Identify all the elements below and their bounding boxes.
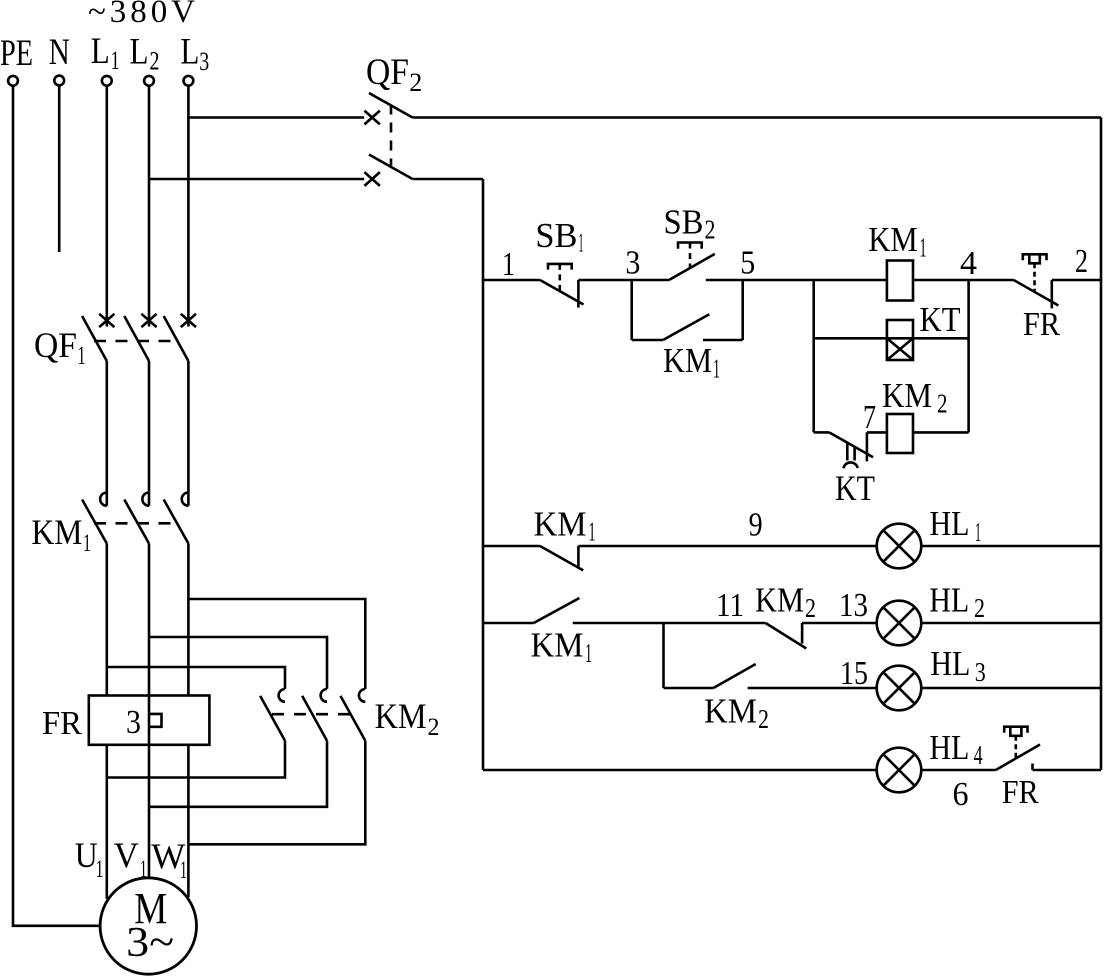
svg-text:3: 3 xyxy=(199,47,209,76)
svg-text:L: L xyxy=(130,32,149,73)
svg-text:1: 1 xyxy=(180,857,187,884)
contact FR NC thermal (main rung) blade xyxy=(1014,280,1059,306)
svg-text:13: 13 xyxy=(839,587,868,624)
svg-text:KM: KM xyxy=(868,220,918,259)
contact FR actuator bar with ticks xyxy=(1023,254,1047,260)
contact KT time-delayed blade xyxy=(829,432,873,457)
node 5 branch vertical xyxy=(741,280,744,340)
wire rung 3 right to rail xyxy=(922,687,1101,690)
svg-text:1: 1 xyxy=(83,530,91,557)
svg-text:KM: KM xyxy=(663,341,712,380)
breaker QF1 pole 3 blade xyxy=(164,316,189,361)
wire KT coil branch xyxy=(814,337,969,340)
svg-text:FR: FR xyxy=(1002,774,1039,811)
contact KM1 NO (rung 2) blade xyxy=(534,598,580,623)
terminal L3 xyxy=(184,76,194,86)
svg-text:15: 15 xyxy=(840,655,868,692)
contactor KM1 main contact pole 1 arc xyxy=(100,493,107,506)
pushbutton SB2 actuator stem (dashed) xyxy=(689,243,692,268)
breaker QF1 pole 1 cross xyxy=(99,314,114,327)
lamp HL4 xyxy=(877,748,922,793)
svg-text:2: 2 xyxy=(150,47,160,76)
svg-text:1: 1 xyxy=(78,341,86,370)
wire rung 4 node 6 segment xyxy=(922,769,996,772)
svg-text:KM: KM xyxy=(31,512,82,552)
terminal L1 xyxy=(102,76,112,86)
svg-text:1: 1 xyxy=(96,856,104,883)
svg-text:1: 1 xyxy=(585,638,592,668)
svg-text:9: 9 xyxy=(749,507,763,544)
svg-text:2: 2 xyxy=(705,215,716,245)
wire V1 below FR to motor xyxy=(148,745,151,877)
wire KM2 pole 1 bottom to U-phase xyxy=(107,741,285,778)
wire left rail xyxy=(482,179,485,770)
svg-text:L: L xyxy=(91,31,110,72)
coil KM1 xyxy=(887,261,913,301)
contactor KM1 main contact pole 2 arc xyxy=(142,493,149,506)
svg-text:KT: KT xyxy=(920,300,961,339)
wire N xyxy=(58,86,61,252)
wire rung 1 right to rail xyxy=(922,545,1101,548)
svg-text:KM: KM xyxy=(375,696,427,736)
svg-text:KM: KM xyxy=(755,581,804,620)
svg-text:4: 4 xyxy=(974,740,983,770)
contact KM1 auxiliary NO right lead xyxy=(703,339,743,342)
breaker QF1 pole 1 blade xyxy=(82,316,107,361)
svg-text:~380V: ~380V xyxy=(88,0,195,30)
svg-text:3~: 3~ xyxy=(126,920,174,966)
contact KM2 NO (rung 3) blade xyxy=(713,664,755,688)
wire KM1 pole 2 down to FR box xyxy=(148,544,151,696)
breaker QF1 pole 2 cross xyxy=(141,314,156,327)
svg-text:SB: SB xyxy=(664,203,704,242)
svg-text:2: 2 xyxy=(805,593,816,623)
svg-text:1: 1 xyxy=(589,517,596,547)
wire rung 4 left (rail to lamp HL4) xyxy=(483,769,876,772)
svg-text:1: 1 xyxy=(579,228,584,258)
wire KM1 pole 1 down to FR box xyxy=(106,544,109,696)
contact KT delay symbol arc xyxy=(844,462,858,468)
svg-text:HL: HL xyxy=(930,504,970,543)
svg-text:1: 1 xyxy=(920,233,927,263)
svg-text:2: 2 xyxy=(937,389,948,419)
wire branch L2-phase to KM2 pole 2 xyxy=(149,637,327,689)
terminal L2 xyxy=(144,76,154,86)
wire L2 branch to QF2 pole 2 xyxy=(149,178,364,181)
svg-text:7: 7 xyxy=(863,399,876,436)
breaker QF2 pole 1 blade xyxy=(369,93,413,118)
svg-text:5: 5 xyxy=(740,245,755,282)
wire branch L3-phase to KM2 pole 3 xyxy=(188,599,365,689)
wire node 3 segment (SB1 to SB2) xyxy=(578,279,669,282)
terminal N xyxy=(54,76,64,86)
junction vertical rung2-rung3 xyxy=(662,623,665,688)
svg-text:2: 2 xyxy=(758,704,769,734)
wire QF1 pole 2 to KM1 xyxy=(148,361,151,506)
svg-text:KM: KM xyxy=(882,376,932,415)
svg-text:2: 2 xyxy=(1075,243,1088,280)
lamp HL3 xyxy=(877,666,922,711)
wire KM1 coil to node 4 xyxy=(912,279,1014,282)
wire QF2 pole 1 to right rail xyxy=(413,116,1102,119)
wire rung 2 node 11 segment xyxy=(573,622,766,625)
svg-text:FR: FR xyxy=(42,705,82,742)
contact FR NC (rung 4) right terminal tick xyxy=(1031,764,1034,771)
contactor KM1 main contact pole 1 blade xyxy=(82,500,107,544)
contact KM1 auxiliary NO (seal-in) left lead xyxy=(632,339,663,342)
contact FR right terminal stub xyxy=(1051,280,1054,308)
wire KM2 pole 3 bottom to W-phase xyxy=(188,741,365,845)
svg-text:V: V xyxy=(114,835,139,875)
thermal relay FR heater box xyxy=(89,696,210,745)
pushbutton SB1 actuator stem (dashed) xyxy=(558,264,561,291)
contactor KM2 main contact pole 2 blade xyxy=(302,696,327,741)
pushbutton SB2 actuator bar xyxy=(678,243,702,249)
wire KM2 coil to node 4 vertical xyxy=(913,431,969,434)
breaker QF1 pole 2 blade xyxy=(124,316,149,361)
contactor KM2 main contact pole 1 arc xyxy=(279,689,285,702)
wire node 1 segment (left rail to SB1) xyxy=(483,279,540,282)
pushbutton SB2 blade (NO) xyxy=(669,254,715,280)
wire rung 2 node 13 segment xyxy=(802,622,876,625)
wire rung 2 left (rail to KM1 NO) xyxy=(483,622,534,625)
contactor KM1 main contact pole 3 arc xyxy=(182,493,189,506)
svg-text:U: U xyxy=(75,835,98,875)
svg-text:N: N xyxy=(49,32,70,73)
svg-text:2: 2 xyxy=(409,68,422,97)
svg-text:L: L xyxy=(180,32,199,73)
svg-text:1: 1 xyxy=(975,517,981,547)
lamp HL2 xyxy=(877,601,922,646)
contact KM1 NC (rung 1) stub xyxy=(577,546,580,567)
svg-text:1: 1 xyxy=(111,46,120,75)
svg-text:KM: KM xyxy=(534,505,587,544)
wire branch L1-phase to KM2 pole 1 xyxy=(107,667,285,689)
contactor KM2 mechanical link (dashed) xyxy=(272,713,352,716)
svg-text:QF: QF xyxy=(34,325,77,365)
contact KT delay symbol ticks xyxy=(847,443,854,461)
contactor KM2 main contact pole 3 blade xyxy=(341,696,366,741)
wire QF2 pole 2 to left rail xyxy=(413,178,484,181)
wire L3 branch to QF2 pole 1 xyxy=(188,116,364,119)
svg-text:2: 2 xyxy=(428,714,440,741)
svg-text:PE: PE xyxy=(0,33,33,74)
wire QF1 pole 3 to KM1 xyxy=(187,361,190,506)
breaker QF2 pole 2 contact cross xyxy=(364,172,380,186)
svg-text:1: 1 xyxy=(502,246,515,283)
breaker QF2 pole 2 blade xyxy=(369,155,413,180)
thermal relay FR heater bracket symbol xyxy=(149,714,162,727)
contactor KM2 main contact pole 2 arc xyxy=(321,689,327,702)
wire rung 2 right to rail xyxy=(922,622,1101,625)
coil KT (time relay) xyxy=(887,320,913,360)
contact FR actuator stem (dashed) xyxy=(1033,263,1036,291)
svg-text:KM: KM xyxy=(704,692,757,731)
wire right rail xyxy=(1100,118,1103,771)
contactor KM2 main contact pole 3 arc xyxy=(359,689,365,702)
wire U1 below FR to motor xyxy=(106,745,109,899)
svg-text:3: 3 xyxy=(975,657,986,687)
wire KM1 pole 3 down to FR box xyxy=(187,544,190,696)
svg-text:1: 1 xyxy=(713,354,720,384)
breaker QF2 mechanical link (dashed) xyxy=(390,105,393,166)
wire PE (to motor frame) xyxy=(13,87,99,926)
svg-text:QF: QF xyxy=(366,52,409,93)
pushbutton SB1 blade (NC) xyxy=(540,280,584,305)
wire KM2 pole 2 bottom to V-phase xyxy=(149,741,327,807)
breaker QF1 mechanical link (dashed) xyxy=(94,340,176,343)
svg-text:HL: HL xyxy=(929,728,969,767)
contactor KM1 mechanical link (dashed) xyxy=(94,522,176,525)
contact KM1 auxiliary NO blade xyxy=(663,314,709,340)
wire KM2 coil branch left jog xyxy=(814,431,830,434)
thermal relay FR middle phase line through box xyxy=(148,696,151,745)
wire rung 1 left (rail to KM1 contact) xyxy=(483,545,540,548)
breaker QF1 pole 3 cross xyxy=(181,314,196,327)
svg-text:HL: HL xyxy=(929,581,969,620)
contact KT right terminal stub (node 7) xyxy=(866,432,869,461)
svg-text:6: 6 xyxy=(953,776,969,813)
wire L2 down to QF1 xyxy=(148,87,151,327)
contact KM2 NC (rung 2) stub xyxy=(801,623,804,644)
contact FR actuator cup xyxy=(1029,254,1040,263)
contactor KM2 main contact pole 1 blade xyxy=(260,696,285,741)
wire W1 below FR to motor xyxy=(187,745,190,897)
terminal PE xyxy=(8,76,18,86)
wire QF1 pole 1 to KM1 xyxy=(106,361,109,506)
wire L3 down to QF1 xyxy=(187,87,190,327)
coil KT cross in lower half xyxy=(887,338,913,360)
wire rung 4 right to rail xyxy=(1033,769,1102,772)
svg-text:3: 3 xyxy=(126,704,141,741)
wire L1 down to QF1 xyxy=(106,87,109,327)
wire node 7 to KM2 coil xyxy=(867,431,887,434)
contactor KM1 main contact pole 3 blade xyxy=(164,500,189,544)
coil KT branch line through box xyxy=(887,337,913,340)
wire rung 1 node 9 segment xyxy=(578,545,876,548)
contact FR (rung 4) actuator stem (dashed) xyxy=(1014,736,1017,759)
svg-text:KM: KM xyxy=(531,626,584,665)
contact FR NC (rung 4) blade xyxy=(996,745,1040,771)
coil KM2 xyxy=(887,414,913,453)
junction vertical (left branch) xyxy=(812,280,815,432)
wire node 2 segment (FR to right rail) xyxy=(1052,279,1101,282)
pushbutton SB1 right terminal stub xyxy=(577,280,580,308)
breaker QF2 pole 1 contact cross xyxy=(364,111,380,125)
svg-text:HL: HL xyxy=(930,644,970,683)
svg-text:4: 4 xyxy=(960,245,977,282)
svg-text:KT: KT xyxy=(835,468,875,508)
contactor KM1 main contact pole 2 blade xyxy=(124,500,149,544)
node 3 branch vertical xyxy=(630,280,633,340)
contact FR (rung 4) actuator bar with ticks xyxy=(1004,727,1027,733)
svg-text:1: 1 xyxy=(140,856,147,883)
svg-text:11: 11 xyxy=(716,587,744,624)
svg-text:FR: FR xyxy=(1023,306,1060,343)
wire rung 3 left (junction to KM2 NO) xyxy=(664,687,714,690)
node 4 vertical xyxy=(967,280,970,432)
motor M 3-phase circle xyxy=(100,878,196,974)
svg-text:3: 3 xyxy=(625,245,640,282)
contact KM1 NC (rung 1) blade xyxy=(540,546,583,570)
svg-text:SB: SB xyxy=(535,216,577,255)
contact KM2 NC (rung 2) blade xyxy=(766,623,807,649)
wire node 5 segment (SB2 to KM1 coil) xyxy=(706,279,887,282)
pushbutton SB1 actuator bar xyxy=(548,264,572,270)
contact FR (rung 4) actuator cup xyxy=(1010,727,1021,736)
lamp HL1 xyxy=(877,524,922,569)
wire rung 3 node 15 segment xyxy=(748,687,876,690)
svg-text:2: 2 xyxy=(974,593,985,623)
